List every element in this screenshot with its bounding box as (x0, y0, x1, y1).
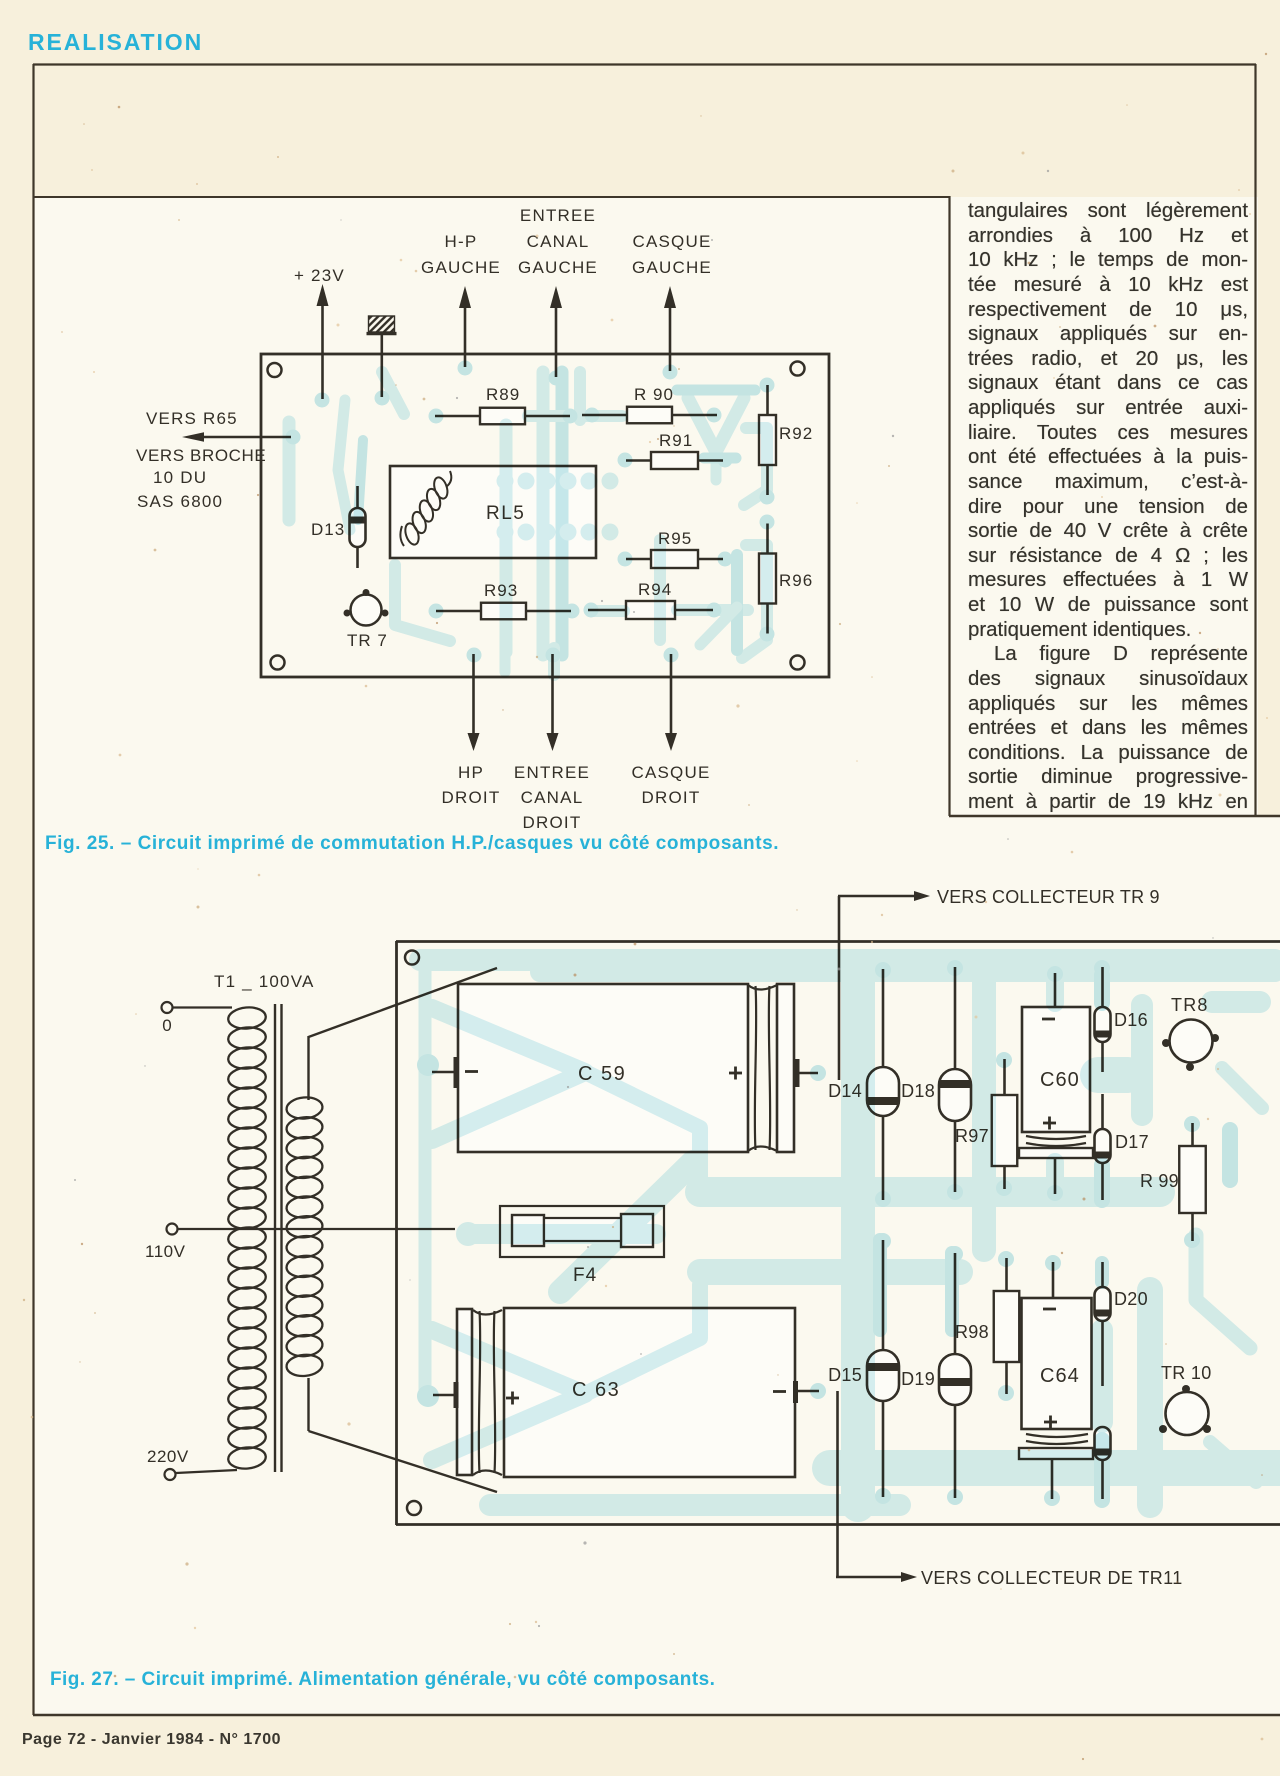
svg-text:CASQUE: CASQUE (633, 232, 712, 251)
svg-text:GAUCHE: GAUCHE (518, 258, 598, 277)
svg-text:VERS BROCHE: VERS BROCHE (136, 446, 266, 465)
svg-text:VERS R65: VERS R65 (146, 409, 238, 428)
svg-text:D19: D19 (901, 1369, 935, 1389)
svg-text:DROIT: DROIT (523, 813, 582, 832)
svg-text:+ 23V: + 23V (294, 266, 345, 285)
svg-text:0: 0 (162, 1016, 171, 1035)
svg-text:TR 7: TR 7 (347, 631, 388, 650)
svg-text:CASQUE: CASQUE (632, 763, 711, 782)
svg-text:TR 10: TR 10 (1161, 1363, 1212, 1383)
svg-text:DROIT: DROIT (642, 788, 701, 807)
svg-text:GAUCHE: GAUCHE (421, 258, 501, 277)
svg-text:R89: R89 (486, 385, 520, 404)
svg-text:ENTREE: ENTREE (514, 763, 590, 782)
svg-text:R 90: R 90 (634, 385, 674, 404)
svg-text:T1 _ 100VA: T1 _ 100VA (214, 972, 315, 991)
svg-text:220V: 220V (147, 1447, 189, 1466)
svg-text:GAUCHE: GAUCHE (632, 258, 712, 277)
svg-text:R96: R96 (779, 571, 813, 590)
svg-text:D17: D17 (1115, 1132, 1149, 1152)
svg-text:10 DU: 10 DU (153, 468, 207, 487)
svg-text:R91: R91 (659, 431, 693, 450)
svg-text:110V: 110V (145, 1242, 186, 1261)
svg-text:VERS COLLECTEUR DE TR11: VERS COLLECTEUR DE TR11 (921, 1568, 1183, 1588)
svg-text:VERS COLLECTEUR TR 9: VERS COLLECTEUR TR 9 (937, 887, 1160, 907)
svg-text:SAS 6800: SAS 6800 (137, 492, 223, 511)
svg-text:ENTREE: ENTREE (520, 206, 596, 225)
svg-text:D13: D13 (311, 520, 345, 539)
svg-text:H-P: H-P (445, 232, 478, 251)
svg-text:CANAL: CANAL (521, 788, 584, 807)
svg-text:C64: C64 (1040, 1365, 1080, 1387)
svg-text:R92: R92 (779, 424, 813, 443)
svg-text:DROIT: DROIT (442, 788, 501, 807)
svg-text:R98: R98 (955, 1322, 989, 1342)
svg-text:D18: D18 (901, 1081, 935, 1101)
svg-text:C60: C60 (1040, 1069, 1080, 1091)
svg-text:HP: HP (458, 763, 484, 782)
